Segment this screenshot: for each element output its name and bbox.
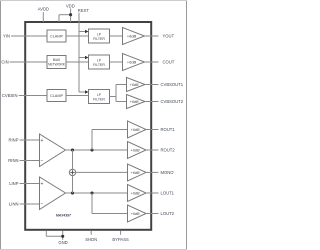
- junction R to ROUT1: [90, 148, 93, 151]
- wire to buf ROUT1: [92, 129, 128, 131]
- wire buf5 out: [146, 213, 159, 215]
- pin RINP: [8, 138, 39, 143]
- svg-text:+6dB: +6dB: [130, 100, 139, 104]
- svg-text:LP: LP: [97, 32, 102, 36]
- svg-text:+: +: [41, 138, 44, 144]
- svg-text:LP: LP: [97, 58, 102, 62]
- wire buf2 out: [146, 149, 159, 151]
- svg-text:+6dB: +6dB: [130, 83, 139, 87]
- svg-text:CLAMP: CLAMP: [50, 94, 64, 98]
- pin REXT: [78, 8, 90, 92]
- wire: [42, 12, 44, 22]
- pin YIN: [3, 34, 47, 39]
- pin CIN: [1, 60, 47, 65]
- wire bias to LP2: [66, 61, 89, 63]
- pin VDD: [59, 4, 75, 22]
- wire REXT vertical: [78, 13, 80, 92]
- buffer ROUT1 +6dB: [128, 121, 147, 138]
- svg-text:LINN: LINN: [9, 202, 19, 207]
- pin BYPASS: [112, 231, 129, 242]
- amp Y +6dB: [123, 28, 145, 45]
- svg-text:YIN: YIN: [3, 34, 10, 39]
- pin CVBSIN: [2, 93, 47, 98]
- wire LP2 to amp: [110, 61, 123, 63]
- junction L to LOUT2: [90, 191, 93, 194]
- REXT arrow to LP3: [79, 90, 88, 94]
- svg-text:+6dB: +6dB: [131, 128, 140, 132]
- svg-text:CVBSOUT2: CVBSOUT2: [161, 99, 184, 104]
- wire amp CVBS1 out: [145, 84, 159, 86]
- svg-text:LOUT2: LOUT2: [161, 211, 175, 216]
- pin SHDN: [85, 231, 97, 242]
- buffer LOUT1 +6dB: [128, 185, 147, 202]
- wire: [70, 9, 72, 23]
- wire: [20, 160, 40, 162]
- wire: [20, 139, 40, 141]
- junction: [69, 13, 72, 16]
- bias network block: [47, 56, 66, 69]
- svg-text:CLAMP: CLAMP: [50, 34, 64, 38]
- junction L to mixer: [71, 191, 74, 194]
- svg-text:VDD: VDD: [66, 4, 75, 9]
- wire L out: [66, 192, 128, 194]
- svg-text:+6dB: +6dB: [131, 148, 140, 152]
- svg-text:MAX4397: MAX4397: [56, 214, 72, 218]
- wire buf4 out: [146, 192, 159, 194]
- svg-text:+: +: [41, 181, 44, 187]
- REXT arrow to LP2: [79, 56, 88, 60]
- wire clamp Y to LP1: [66, 35, 89, 37]
- svg-text:COUT: COUT: [163, 60, 175, 65]
- wire LP3 out: [110, 96, 117, 98]
- op-amp R: [40, 134, 66, 167]
- svg-text:LP: LP: [97, 93, 102, 97]
- svg-text:BYPASS: BYPASS: [112, 237, 129, 242]
- wire L down: [91, 193, 93, 214]
- pin LINP: [9, 181, 39, 186]
- svg-text:FILTER: FILTER: [93, 63, 105, 67]
- svg-text:LOUT1: LOUT1: [161, 191, 175, 196]
- svg-text:YOUT: YOUT: [163, 34, 175, 39]
- LP filter 1: [89, 29, 110, 43]
- wire to buf LOUT2: [92, 213, 128, 215]
- svg-text:+6dB: +6dB: [131, 191, 140, 195]
- wire amp CVBS2 out: [145, 101, 159, 103]
- pin GND: [46, 231, 67, 245]
- wire: [20, 183, 40, 185]
- amp CVBS2 +6dB: [127, 95, 146, 109]
- wire: [11, 35, 47, 37]
- svg-text:−: −: [41, 158, 44, 164]
- svg-text:CVBSIN: CVBSIN: [2, 93, 18, 98]
- svg-text:CIN: CIN: [1, 60, 8, 65]
- IC body box: [25, 22, 151, 230]
- LP filter 3: [89, 90, 110, 104]
- wire: [10, 61, 47, 63]
- svg-text:SHDN: SHDN: [85, 237, 97, 242]
- svg-text:FILTER: FILTER: [93, 37, 105, 41]
- wire R to mixer: [72, 150, 74, 169]
- summing node: [69, 169, 75, 175]
- svg-text:RINN: RINN: [8, 158, 18, 163]
- svg-text:+6dB: +6dB: [127, 33, 137, 38]
- buffer LOUT2 +6dB: [128, 205, 147, 222]
- svg-text:ROUT1: ROUT1: [161, 127, 176, 132]
- svg-text:−: −: [41, 202, 44, 208]
- pin LINN: [9, 202, 40, 207]
- svg-text:+6dB: +6dB: [131, 171, 140, 175]
- svg-text:AVDD: AVDD: [38, 7, 49, 12]
- svg-text:BIAS: BIAS: [53, 58, 61, 62]
- LP filter 2: [89, 55, 110, 69]
- clamp block Y: [47, 30, 66, 42]
- wire clamp CVBS to LP3: [66, 95, 89, 97]
- pin RINN: [8, 158, 39, 163]
- wire amp C to COUT: [145, 61, 159, 63]
- REXT arrow to LP1: [79, 30, 88, 34]
- buffer MONO +6dB: [128, 164, 147, 181]
- wire to amp4: [116, 101, 127, 103]
- wire mixer out: [76, 171, 128, 173]
- amp CVBS1 +6dB: [127, 78, 146, 92]
- svg-text:LINP: LINP: [9, 181, 19, 186]
- wire: [59, 14, 71, 16]
- wire: [19, 95, 47, 97]
- svg-text:MONO: MONO: [161, 170, 175, 175]
- svg-text:RINP: RINP: [8, 138, 18, 143]
- wire buf3 out: [146, 171, 159, 173]
- wire to amp3: [116, 84, 127, 86]
- wire LP1 to amp: [110, 35, 123, 37]
- junction R to mixer: [71, 148, 74, 151]
- svg-text:+6dB: +6dB: [131, 212, 140, 216]
- wire: [58, 15, 60, 22]
- wire split vertical: [115, 85, 117, 102]
- wire buf1 out: [146, 129, 159, 131]
- wire L to mixer: [72, 176, 74, 193]
- clamp block CVBS: [47, 90, 66, 102]
- wire R up: [91, 130, 93, 151]
- svg-text:FILTER: FILTER: [93, 98, 105, 102]
- wire: [20, 203, 40, 205]
- svg-text:REXT: REXT: [78, 8, 90, 13]
- pin AVDD: [38, 7, 49, 22]
- svg-text:ROUT2: ROUT2: [161, 148, 176, 153]
- svg-text:GND: GND: [58, 240, 67, 245]
- wire amp Y to YOUT: [145, 35, 159, 37]
- svg-text:CVBSOUT1: CVBSOUT1: [161, 82, 184, 87]
- svg-text:NETWORK: NETWORK: [48, 63, 66, 67]
- op-amp L: [40, 177, 66, 210]
- buffer ROUT2 +6dB: [128, 142, 147, 159]
- svg-text:+6dB: +6dB: [127, 59, 137, 64]
- wire R out: [66, 149, 128, 151]
- amp C +6dB: [123, 54, 145, 71]
